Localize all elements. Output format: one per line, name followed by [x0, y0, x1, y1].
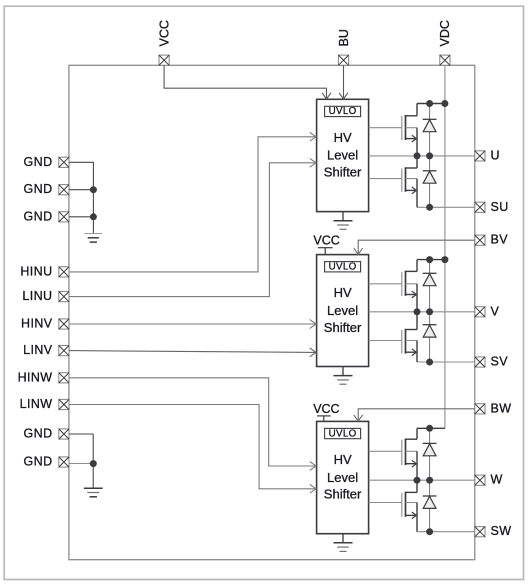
- label LINU L5: [22, 289, 52, 303]
- diode V high-side: [423, 273, 437, 285]
- wire GND2: [69, 189, 94, 191]
- pin BU (top): [338, 55, 348, 65]
- label GND L1: [24, 155, 53, 169]
- text HV W: [334, 452, 352, 467]
- text Shifter V: [324, 320, 362, 335]
- wire V output node: [369, 311, 475, 313]
- svg-text:HINW: HINW: [18, 370, 53, 384]
- wire V diode chain: [429, 260, 431, 362]
- junction V rail-diode: [426, 256, 433, 263]
- junction W rail-diode: [426, 425, 433, 432]
- svg-text:HV: HV: [334, 285, 352, 300]
- label HINV L6: [21, 317, 53, 331]
- text Level U: [327, 148, 358, 163]
- svg-text:V: V: [491, 304, 500, 318]
- UVLO box U: [325, 106, 361, 117]
- label V: [491, 304, 500, 318]
- arrow HINV into block V: [310, 320, 316, 329]
- svg-text:GND: GND: [24, 427, 53, 441]
- text HV U: [334, 130, 352, 145]
- pin SU (right): [475, 202, 485, 212]
- pin V (right): [475, 307, 485, 317]
- junction U bottom-diode: [426, 204, 433, 211]
- diode U high-side: [423, 119, 437, 131]
- text Shifter U: [324, 165, 362, 180]
- transistor V low-side: [402, 312, 417, 362]
- wire W source node: [417, 531, 475, 533]
- ground logic 2: [84, 488, 103, 497]
- svg-text:HINV: HINV: [21, 317, 53, 331]
- pin VDC (top): [440, 55, 450, 65]
- arrow LINV into block V: [310, 348, 316, 357]
- VCC supply stub block W: [317, 416, 331, 422]
- wire LINU: [69, 163, 315, 297]
- UVLO box W: [325, 428, 361, 439]
- HV level shifter block V: [317, 255, 369, 367]
- arrow HINU into block U: [310, 132, 316, 141]
- svg-text:GND: GND: [24, 182, 53, 196]
- VCC label block W: [313, 402, 339, 416]
- junction GND3: [90, 213, 97, 220]
- wire V low-side gate: [369, 340, 402, 342]
- svg-text:UVLO: UVLO: [329, 106, 357, 117]
- junction GND5: [90, 460, 97, 467]
- wire U source node: [417, 206, 475, 208]
- VCC label block V: [313, 234, 339, 248]
- svg-text:SW: SW: [491, 524, 512, 538]
- pin LINW L9 (left): [59, 399, 69, 409]
- label LINV L7: [23, 343, 53, 357]
- wire GND1: [69, 162, 94, 233]
- junction V mid-source: [414, 308, 421, 315]
- label GND L3: [24, 209, 53, 223]
- arrow BU into block U: [339, 93, 348, 99]
- svg-text:Level: Level: [327, 470, 358, 485]
- svg-text:UVLO: UVLO: [329, 262, 357, 273]
- wire V source node: [417, 361, 475, 363]
- svg-text:VCC: VCC: [313, 234, 339, 248]
- diode U low-side: [423, 171, 437, 183]
- svg-text:W: W: [491, 473, 503, 487]
- svg-text:VCC: VCC: [157, 20, 171, 46]
- wire U top rail: [417, 103, 445, 105]
- wire U output node: [369, 155, 475, 157]
- label VDC: [438, 20, 452, 46]
- pin GND L2 (left): [59, 185, 69, 195]
- wire W high-side gate: [369, 450, 402, 452]
- wire VDC bus: [444, 65, 446, 428]
- svg-text:LINW: LINW: [20, 397, 53, 411]
- svg-text:HV: HV: [334, 452, 352, 467]
- label BV: [491, 233, 509, 247]
- wire BW bootstrap: [358, 409, 475, 420]
- junction GND2: [90, 186, 97, 193]
- label U: [491, 148, 500, 162]
- wire LINW: [69, 405, 315, 489]
- svg-text:BV: BV: [491, 233, 509, 247]
- svg-text:HINU: HINU: [20, 264, 52, 278]
- pin GND L11 (left): [59, 457, 69, 467]
- arrow BW into block W: [354, 415, 363, 421]
- wire W diode chain: [429, 428, 431, 531]
- label GND L10: [24, 427, 53, 441]
- label HINU L4: [20, 264, 52, 278]
- transistor U high-side: [402, 104, 417, 156]
- transistor W low-side: [402, 480, 417, 532]
- label BW: [491, 401, 512, 415]
- transistor U low-side: [402, 156, 417, 207]
- arrow VCC into block U: [322, 93, 331, 99]
- text Shifter W: [324, 487, 362, 502]
- junction U mid-source: [414, 152, 421, 159]
- label HINW L8: [18, 370, 53, 384]
- arrow LINW into block W: [310, 484, 316, 493]
- svg-text:HV: HV: [334, 130, 352, 145]
- svg-text:BU: BU: [337, 29, 351, 46]
- pin W (right): [475, 475, 485, 485]
- wire V high-side gate: [369, 283, 402, 285]
- diode W high-side: [423, 443, 437, 455]
- wire HINV: [69, 323, 315, 325]
- svg-text:Shifter: Shifter: [324, 320, 362, 335]
- pin HINU L4 (left): [59, 267, 69, 277]
- wire U diode chain: [429, 104, 431, 208]
- junction V rail-VDC: [441, 256, 448, 263]
- wire W output node: [369, 479, 475, 481]
- VCC supply stub block V: [318, 248, 333, 255]
- transistor W high-side: [402, 428, 417, 480]
- svg-text:BW: BW: [491, 401, 512, 415]
- label GND L2: [24, 182, 53, 196]
- pin GND L10 (left): [59, 429, 69, 439]
- wire BU feed: [343, 65, 345, 98]
- wire U high-side gate: [369, 127, 402, 129]
- transistor V high-side: [402, 260, 417, 312]
- junction V bottom-diode: [426, 359, 433, 366]
- diode W low-side: [423, 496, 437, 508]
- svg-text:SV: SV: [491, 355, 509, 369]
- wire V top rail: [417, 259, 445, 261]
- junction U rail-VDC: [441, 100, 448, 107]
- svg-text:LINU: LINU: [22, 289, 52, 303]
- svg-text:GND: GND: [24, 209, 53, 223]
- label LINW L9: [20, 397, 53, 411]
- pin LINV L7 (left): [59, 346, 69, 356]
- arrow LINU into block U: [310, 158, 316, 167]
- pin U (right): [475, 151, 485, 161]
- arrow BV into block V: [354, 248, 363, 254]
- pin GND L3 (left): [59, 212, 69, 222]
- wire W top rail: [417, 427, 445, 429]
- HV level shifter block U: [317, 99, 369, 211]
- wire LINV: [69, 351, 315, 353]
- diode V low-side: [423, 325, 437, 337]
- label SV: [491, 355, 509, 369]
- label GND L11: [24, 455, 53, 469]
- pin HINV L6 (left): [59, 319, 69, 329]
- svg-text:Shifter: Shifter: [324, 487, 362, 502]
- text HV V: [334, 285, 352, 300]
- ground below block V: [334, 367, 353, 385]
- pin SW (right): [475, 527, 485, 537]
- wire U low-side gate: [369, 178, 402, 180]
- svg-text:LINV: LINV: [23, 343, 53, 357]
- pin SV (right): [475, 357, 485, 367]
- pin BV (right): [475, 235, 485, 245]
- svg-text:SU: SU: [491, 200, 509, 214]
- wire VCC feed: [164, 65, 326, 98]
- label VCC: [157, 20, 171, 46]
- svg-text:VCC: VCC: [313, 402, 339, 416]
- junction V mid-diode: [426, 308, 433, 315]
- svg-text:UVLO: UVLO: [329, 428, 357, 439]
- junction W bottom-diode: [426, 528, 433, 535]
- svg-text:Shifter: Shifter: [324, 165, 362, 180]
- UVLO box V: [325, 262, 361, 273]
- junction W mid-source: [414, 477, 421, 484]
- wire HINW: [69, 378, 315, 466]
- ground below block W: [334, 534, 353, 552]
- wire W low-side gate: [369, 502, 402, 504]
- svg-text:Level: Level: [327, 303, 358, 318]
- junction U rail-diode: [426, 100, 433, 107]
- junction U mid-diode: [426, 152, 433, 159]
- svg-text:U: U: [491, 148, 500, 162]
- wire GND5: [69, 463, 93, 465]
- label BU: [337, 29, 351, 46]
- wire GND3: [69, 216, 94, 218]
- pin GND L1 (left): [59, 157, 69, 167]
- text Level V: [327, 303, 358, 318]
- pin LINU L5 (left): [59, 292, 69, 302]
- label W: [491, 473, 503, 487]
- pin HINW L8 (left): [59, 373, 69, 383]
- text Level W: [327, 470, 358, 485]
- pin VCC (top): [159, 55, 169, 65]
- HV level shifter block W: [317, 421, 369, 533]
- arrow HINW into block W: [310, 462, 316, 471]
- svg-text:Level: Level: [327, 148, 358, 163]
- junction W mid-diode: [426, 477, 433, 484]
- wire HINU: [69, 137, 315, 272]
- wire GND4: [69, 434, 93, 488]
- wire BV bootstrap: [358, 240, 475, 253]
- svg-text:GND: GND: [24, 155, 53, 169]
- ground logic 1: [85, 234, 103, 243]
- svg-text:VDC: VDC: [438, 20, 452, 46]
- label SW: [491, 524, 512, 538]
- label SU: [491, 200, 509, 214]
- main module box: [69, 65, 475, 559]
- ground below block U: [334, 212, 353, 230]
- svg-text:GND: GND: [24, 455, 53, 469]
- pin BW (right): [475, 404, 485, 414]
